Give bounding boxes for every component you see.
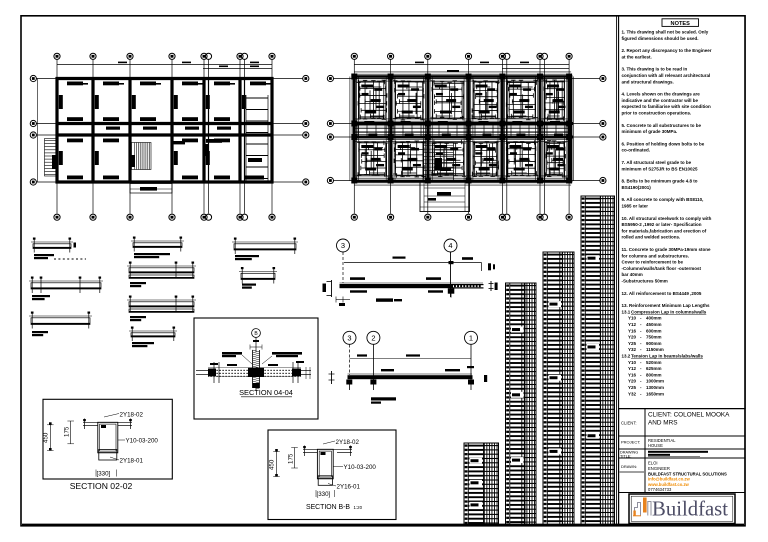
svg-text:Tension Lap in beams/slabs/wal: Tension Lap in beams/slabs/walls bbox=[631, 354, 703, 359]
svg-text:450: 450 bbox=[43, 432, 50, 443]
svg-text:ENGINEER: ENGINEER bbox=[648, 466, 670, 471]
beam detail 07 bbox=[29, 312, 92, 337]
plan 1 beam labels bbox=[59, 82, 271, 180]
svg-text:3: 3 bbox=[341, 241, 345, 250]
svg-text:prior to construction operatio: prior to construction operations. bbox=[622, 111, 692, 116]
svg-text:bar 40mm: bar 40mm bbox=[622, 272, 643, 277]
svg-text:NOTES: NOTES bbox=[671, 21, 691, 27]
svg-text:800mm: 800mm bbox=[646, 372, 662, 377]
svg-text:Y10: Y10 bbox=[628, 360, 637, 365]
svg-text:Y25: Y25 bbox=[628, 341, 637, 346]
svg-text:Y10-03-200: Y10-03-200 bbox=[344, 464, 377, 471]
svg-text:10. All structural steelwork t: 10. All structural steelwork to comply w… bbox=[622, 216, 712, 221]
title block project row bbox=[621, 438, 676, 448]
beam detail 09 bbox=[129, 327, 177, 348]
plan 1 stair middle bbox=[129, 143, 151, 170]
svg-text:1. This drawing shall not be s: 1. This drawing shall not be scaled. Onl… bbox=[622, 30, 709, 35]
svg-text:1985 or later: 1985 or later bbox=[622, 204, 649, 209]
beam 02 elevation bbox=[346, 345, 474, 404]
svg-text:7. All structural steel grade: 7. All structural steel grade to be bbox=[622, 160, 692, 165]
svg-text:Compression Lap in columns/wal: Compression Lap in columns/walls bbox=[631, 309, 707, 314]
column schedule tower 4 bbox=[581, 196, 615, 525]
beam detail 05 bbox=[127, 262, 196, 288]
title block bbox=[619, 409, 745, 526]
notes panel bbox=[619, 16, 746, 409]
title block client row bbox=[621, 412, 730, 427]
beam detail 04 bbox=[29, 277, 103, 301]
floor plan 2 - first floor slab layout bbox=[334, 60, 600, 214]
column schedule tower 1 bbox=[464, 443, 499, 525]
svg-text:1150mm: 1150mm bbox=[646, 347, 664, 352]
svg-text:figured dimensions should be u: figured dimensions should be used. bbox=[622, 36, 699, 41]
svg-text:2: 2 bbox=[371, 334, 375, 343]
beam 02 right end marker bbox=[484, 375, 487, 382]
plan 1 grid bubbles bbox=[30, 53, 309, 220]
svg-text:175: 175 bbox=[64, 426, 71, 437]
svg-text:SECTION 04-04: SECTION 04-04 bbox=[239, 388, 293, 397]
plan 1 stair right bay ladder bbox=[246, 95, 268, 181]
svg-text:ELOI: ELOI bbox=[648, 461, 658, 466]
buildfast logo bbox=[629, 494, 735, 524]
svg-text:5. Concrete to all substructur: 5. Concrete to all substructures to be bbox=[622, 123, 702, 128]
beam 1-1 elevation grid circle 3 bbox=[337, 239, 350, 252]
svg-text:PROJECT:: PROJECT: bbox=[621, 440, 640, 445]
column schedule tower 2 bbox=[506, 283, 537, 525]
svg-text:13.1: 13.1 bbox=[622, 309, 631, 314]
svg-text:AND MRS: AND MRS bbox=[648, 420, 677, 427]
svg-text:at the earliest.: at the earliest. bbox=[622, 54, 652, 59]
svg-text:info@buildfast.co.zw: info@buildfast.co.zw bbox=[648, 477, 691, 482]
title block drawing title row bbox=[620, 451, 708, 459]
svg-text:[330]: [330] bbox=[97, 471, 111, 478]
svg-text:13.2: 13.2 bbox=[622, 354, 631, 359]
svg-text:Y10: Y10 bbox=[628, 316, 637, 321]
svg-text:450: 450 bbox=[269, 459, 276, 470]
svg-text:expected to familiarise with s: expected to familiarise with site condit… bbox=[622, 104, 712, 109]
svg-text:750mm: 750mm bbox=[646, 335, 662, 340]
svg-text:900mm: 900mm bbox=[646, 341, 662, 346]
svg-text:Y32: Y32 bbox=[628, 347, 637, 352]
svg-text:co-ordinated.: co-ordinated. bbox=[622, 148, 651, 153]
beam detail 03 bbox=[232, 238, 298, 261]
svg-text:DRAWN:: DRAWN: bbox=[621, 464, 637, 469]
svg-text:rolled and welded sections.: rolled and welded sections. bbox=[622, 235, 681, 240]
svg-text:Y20: Y20 bbox=[628, 379, 637, 384]
svg-text:for materials,fabrication and: for materials,fabrication and erection o… bbox=[622, 228, 707, 233]
beam 02 elevation grid circle 3 bbox=[343, 331, 356, 344]
svg-text:Y12: Y12 bbox=[628, 366, 637, 371]
svg-text:4: 4 bbox=[448, 241, 452, 250]
svg-text:1300mm: 1300mm bbox=[646, 385, 664, 390]
svg-text:2Y18-01: 2Y18-01 bbox=[120, 458, 144, 465]
title block drawn row bbox=[621, 461, 727, 493]
svg-text:SECTION B-B: SECTION B-B bbox=[306, 504, 350, 511]
svg-text:2Y18-02: 2Y18-02 bbox=[336, 439, 360, 446]
svg-text:11. Concrete to grade 30MPa-19: 11. Concrete to grade 30MPa-19mm stone bbox=[622, 247, 712, 252]
svg-text:3: 3 bbox=[347, 334, 351, 343]
plan 1 stair left bbox=[45, 139, 59, 177]
svg-text:-Columns/walls/tank floor -out: -Columns/walls/tank floor -outermost bbox=[622, 266, 702, 271]
svg-text:and structural drawings.: and structural drawings. bbox=[622, 79, 674, 84]
svg-text:1: 1 bbox=[469, 334, 473, 343]
svg-text:[330]: [330] bbox=[317, 491, 331, 498]
section 02-02 title bbox=[70, 481, 133, 491]
svg-text:Y16: Y16 bbox=[628, 328, 637, 333]
svg-text:450mm: 450mm bbox=[646, 322, 662, 327]
beam detail 02 bbox=[131, 237, 184, 259]
svg-text:2. Report any discrepancy to t: 2. Report any discrepancy to the Enginee… bbox=[622, 48, 712, 53]
beam 02 left end marker bbox=[329, 371, 335, 384]
svg-text:indicative and the contractor: indicative and the contractor will be bbox=[622, 98, 699, 103]
svg-text:conjunction with all relevant: conjunction with all relevant architectu… bbox=[622, 73, 711, 78]
plan 2 extension below bbox=[420, 181, 470, 212]
notes text bbox=[622, 30, 712, 397]
svg-text:Y25: Y25 bbox=[628, 385, 637, 390]
section B-B detail bbox=[268, 430, 396, 520]
beam 1-1 elevation grid circle 4 bbox=[444, 239, 457, 252]
svg-text:625mm: 625mm bbox=[646, 366, 662, 371]
svg-text:175: 175 bbox=[288, 453, 295, 464]
svg-text:2Y18-02: 2Y18-02 bbox=[120, 412, 144, 419]
svg-text:1:20: 1:20 bbox=[354, 505, 363, 510]
svg-text:8. Bolts to be minimum grade 4: 8. Bolts to be minimum grade 4.8 to bbox=[622, 179, 698, 184]
svg-text:13. Reinforcement Minimum Lap: 13. Reinforcement Minimum Lap Lengths bbox=[622, 303, 711, 308]
beam 02 elevation grid circle 1 bbox=[465, 331, 478, 344]
beam 1-1 right end marker bbox=[488, 263, 498, 291]
beam detail 01 bbox=[31, 238, 73, 260]
svg-text:6. Position of holding down bo: 6. Position of holding down bolts to be bbox=[622, 141, 705, 146]
section B-B title bbox=[306, 504, 363, 511]
svg-text:Cover to reinforcement to be: Cover to reinforcement to be bbox=[622, 260, 684, 265]
svg-text:SECTION 02-02: SECTION 02-02 bbox=[70, 481, 133, 491]
beam 02 elevation grid circle 2 bbox=[367, 331, 380, 344]
svg-text:CLIENT:: CLIENT: bbox=[621, 421, 637, 426]
section 02-02 detail bbox=[43, 399, 173, 479]
svg-text:400mm: 400mm bbox=[646, 316, 662, 321]
beam detail 06 bbox=[239, 267, 277, 289]
svg-text:600mm: 600mm bbox=[646, 328, 662, 333]
svg-text:minimum of grade 30MPa.: minimum of grade 30MPa. bbox=[622, 129, 678, 134]
svg-text:minimum of S275JR to BS EN1002: minimum of S275JR to BS EN10025 bbox=[622, 166, 699, 171]
svg-text:Y20: Y20 bbox=[628, 335, 637, 340]
floor plan 1 - ground floor beam layout bbox=[37, 60, 303, 214]
svg-text:Y32: Y32 bbox=[628, 391, 637, 396]
plan 2 slab reinforcement mesh bbox=[350, 72, 574, 185]
svg-text:1650mm: 1650mm bbox=[646, 391, 664, 396]
svg-text:1000mm: 1000mm bbox=[646, 379, 664, 384]
svg-text:4. Levels shown on the drawing: 4. Levels shown on the drawings are bbox=[622, 92, 701, 97]
svg-text:TITLE:: TITLE: bbox=[620, 454, 631, 458]
section 04-04 detail bbox=[194, 318, 318, 419]
svg-text:12. All reinforcement to BS444: 12. All reinforcement to BS4449 ,2005 bbox=[622, 291, 702, 296]
beam detail 01 end mark and dashed leader bbox=[54, 243, 86, 260]
svg-text:for columns and substructures.: for columns and substructures. bbox=[622, 253, 690, 258]
svg-text:-Substructures: -Substructures 50mm bbox=[622, 279, 668, 284]
svg-text:CLIENT: COLONEL MOOKA: CLIENT: COLONEL MOOKA bbox=[648, 412, 730, 419]
plan 2 stair bbox=[423, 143, 454, 181]
column schedule tower 3 bbox=[543, 252, 574, 525]
plan 1 porch extension bbox=[130, 184, 172, 194]
svg-text:HOUSE: HOUSE bbox=[648, 443, 663, 448]
svg-text:Y16: Y16 bbox=[628, 372, 637, 377]
plan 2 grid bubbles bbox=[327, 53, 606, 220]
svg-text:BS4190(2001): BS4190(2001) bbox=[622, 185, 652, 190]
svg-text:520mm: 520mm bbox=[646, 360, 662, 365]
svg-text:Y12: Y12 bbox=[628, 322, 637, 327]
svg-text:0774634733: 0774634733 bbox=[648, 487, 672, 492]
beam detail 08 bbox=[127, 296, 196, 322]
svg-text:9. All concrete to comply with: 9. All concrete to comply with BS8110, bbox=[622, 197, 704, 202]
svg-text:Y10-03-200: Y10-03-200 bbox=[126, 438, 159, 445]
svg-text:2Y16-01: 2Y16-01 bbox=[337, 484, 361, 491]
svg-text:Buildfast: Buildfast bbox=[652, 497, 728, 521]
svg-text:BS5950-2 ,1992 or later- Speci: BS5950-2 ,1992 or later- Specification bbox=[622, 222, 702, 227]
beam 1-1 elevation bbox=[323, 252, 484, 306]
svg-text:3. This drawing is to be read: 3. This drawing is to be read in bbox=[622, 67, 688, 72]
